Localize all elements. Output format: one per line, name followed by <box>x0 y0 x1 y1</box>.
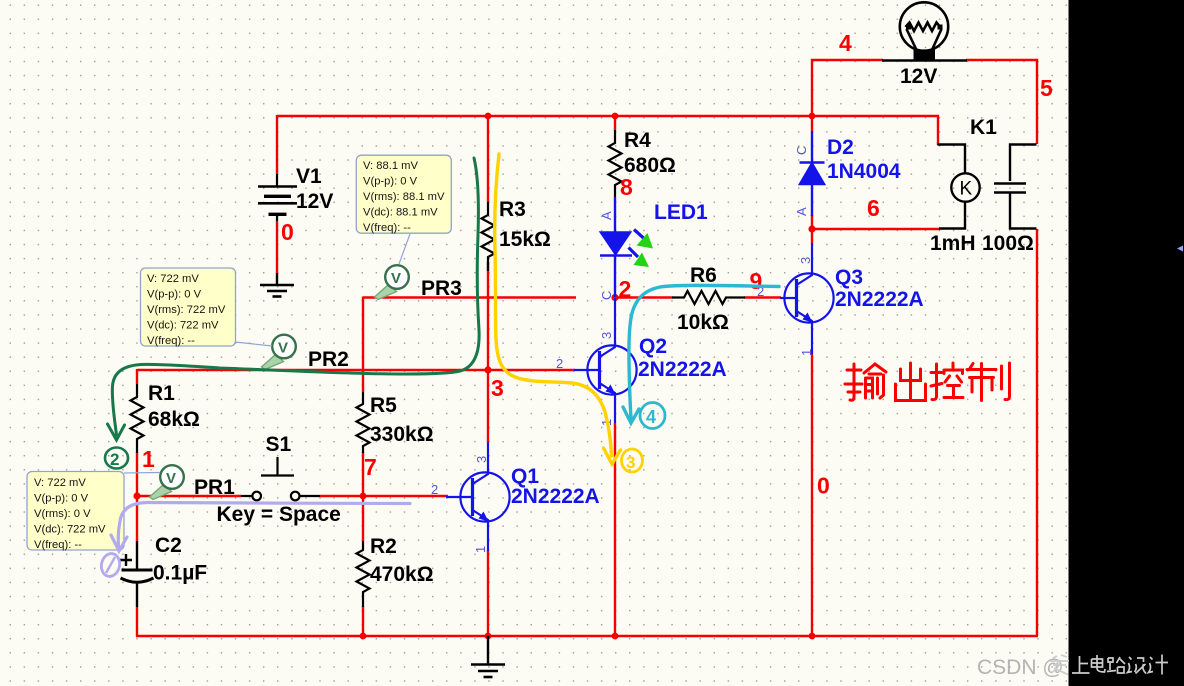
K1 coil <box>938 145 966 174</box>
wire R6 to Q3 base <box>744 296 781 298</box>
wire lamp branch right to contact <box>966 60 1037 144</box>
ground under battery <box>260 273 294 297</box>
char 控 <box>931 364 942 400</box>
svg-text:K: K <box>960 179 973 200</box>
junction node 7 <box>360 493 367 500</box>
junction bottom rail Q2 <box>612 633 619 640</box>
wire V1 top stub <box>276 115 278 174</box>
sidebar cyan marker <box>1177 246 1183 252</box>
svg-text:R1: R1 <box>148 382 175 405</box>
svg-text:Q2: Q2 <box>639 335 667 358</box>
wire R4 top stub <box>614 116 616 130</box>
tooltip PR2 leader <box>235 342 272 346</box>
junction bottom rail R2 <box>360 633 367 640</box>
switch S1 <box>241 457 320 500</box>
svg-text:V: V <box>391 270 401 287</box>
svg-text:12V: 12V <box>900 65 937 88</box>
resistor R6 (horizontal) <box>672 291 745 304</box>
char 上 <box>1072 656 1090 673</box>
svg-text:R3: R3 <box>499 198 526 221</box>
svg-text:R6: R6 <box>690 264 717 287</box>
svg-text:V: 722 mV: V: 722 mV <box>34 477 86 489</box>
svg-text:V(rms): 0 V: V(rms): 0 V <box>34 508 91 520</box>
svg-text:Key = Space: Key = Space <box>217 503 341 526</box>
junction at lamp/D2 branch <box>809 113 816 120</box>
probe PR1 <box>150 465 184 499</box>
wire node6 row to relay coil <box>812 228 940 230</box>
svg-text:R4: R4 <box>624 129 651 152</box>
junction at R3 top <box>485 113 492 120</box>
svg-text:2: 2 <box>110 450 119 469</box>
svg-text:3: 3 <box>626 453 635 472</box>
char 制 <box>967 364 996 401</box>
svg-text:CSDN @: CSDN @ <box>977 656 1064 679</box>
tooltip PR3 leader <box>399 234 410 264</box>
probe PR3 <box>375 265 409 299</box>
junction node 2 <box>611 294 618 301</box>
wire node3 to Q1 collector <box>487 370 489 442</box>
junction bottom rail Q3 <box>809 633 816 640</box>
resistor R5 <box>357 392 370 453</box>
transistor Q1 <box>446 442 510 551</box>
svg-text:V: V <box>278 340 288 357</box>
svg-text:V(freq): --: V(freq): -- <box>34 539 82 551</box>
svg-text:0: 0 <box>281 219 294 245</box>
relay K1 <box>938 145 1037 229</box>
K1 contact <box>1010 145 1037 182</box>
svg-text:PR1: PR1 <box>194 476 235 499</box>
junction at R4 top <box>612 113 619 120</box>
wire node3 row <box>137 369 575 371</box>
svg-text:1: 1 <box>473 546 488 553</box>
wire R3 bottom to node 3 <box>487 262 489 370</box>
tooltip PR1 leader <box>124 472 160 475</box>
wire relay contact bottom to right rail <box>1036 229 1038 636</box>
svg-text:470kΩ: 470kΩ <box>370 563 434 586</box>
char 设 <box>1128 657 1147 674</box>
resistor R2 <box>357 541 370 607</box>
svg-text:330kΩ: 330kΩ <box>370 423 434 446</box>
wire R3 branch top <box>487 116 489 202</box>
transistor Q3 <box>780 243 834 354</box>
char 路 <box>1107 657 1125 673</box>
svg-text:3: 3 <box>599 332 614 339</box>
resistor R4 <box>609 130 622 197</box>
annotation lavender curve to node 1 <box>111 502 410 551</box>
svg-text:100Ω: 100Ω <box>982 232 1034 255</box>
resistor R3 <box>482 202 495 271</box>
LED1 emission arrows <box>629 230 654 268</box>
svg-text:1mH: 1mH <box>930 232 976 255</box>
svg-text:2: 2 <box>431 482 438 497</box>
annotation cyan curve from node 9 <box>623 285 779 423</box>
annotation green curve to node 2 circle <box>108 158 480 440</box>
svg-text:C: C <box>599 291 614 300</box>
annotation circled 3 (yellow) <box>622 449 643 472</box>
annotation circled 4 (cyan) <box>640 403 665 429</box>
junction node 1 <box>133 492 140 499</box>
svg-text:V(rms): 88.1 mV: V(rms): 88.1 mV <box>363 191 445 203</box>
svg-text:10kΩ: 10kΩ <box>677 311 729 334</box>
svg-text:2N2222A: 2N2222A <box>511 485 600 508</box>
svg-text:1: 1 <box>799 349 814 356</box>
transistor Q2 <box>574 298 637 423</box>
svg-text:4: 4 <box>839 30 852 56</box>
svg-text:12V: 12V <box>296 190 333 213</box>
svg-text:V: 88.1 mV: V: 88.1 mV <box>363 160 418 172</box>
wire S1 row left <box>137 495 241 497</box>
svg-text:15kΩ: 15kΩ <box>499 228 551 251</box>
svg-text:K1: K1 <box>970 116 997 139</box>
red title 输出控制 <box>845 363 1010 401</box>
svg-text:7: 7 <box>364 454 377 480</box>
svg-text:V(p-p): 0 V: V(p-p): 0 V <box>363 176 418 188</box>
svg-text:V: 722 mV: V: 722 mV <box>147 273 199 285</box>
svg-text:V(p-p): 0 V: V(p-p): 0 V <box>34 493 89 505</box>
wire R2 bottom to rail <box>362 606 364 636</box>
watermark chinese 爱上电路设计 <box>1050 655 1168 675</box>
svg-text:PR2: PR2 <box>308 348 349 371</box>
svg-text:D2: D2 <box>827 136 854 159</box>
annotation circled 0 (lavender) <box>99 552 121 578</box>
char 电 <box>1092 655 1106 672</box>
wire C2 bottom to rail corner <box>136 607 138 636</box>
svg-text:6: 6 <box>867 195 880 221</box>
svg-text:R5: R5 <box>370 394 397 417</box>
svg-text:0: 0 <box>817 473 830 499</box>
svg-text:8: 8 <box>620 174 633 200</box>
svg-text:1N4004: 1N4004 <box>827 160 901 183</box>
tooltip PR3 box <box>356 155 451 234</box>
wire Q1 emitter to bottom rail <box>487 550 489 636</box>
probe PR2 <box>262 335 296 370</box>
wire D2 anode to node6 <box>811 215 813 243</box>
svg-text:3: 3 <box>798 257 813 264</box>
svg-text:V(dc): 722 mV: V(dc): 722 mV <box>34 524 106 536</box>
svg-text:A: A <box>599 211 614 220</box>
wire node2 rail <box>363 296 576 298</box>
wire D2 top stub <box>811 116 813 131</box>
svg-text:Q3: Q3 <box>835 266 863 289</box>
LED1 <box>600 197 632 297</box>
black sidebar <box>1069 0 1184 686</box>
annotation circled 2 (green) <box>105 448 128 470</box>
svg-text:3: 3 <box>474 456 489 463</box>
svg-text:2N2222A: 2N2222A <box>835 288 924 311</box>
battery V1 <box>258 174 297 221</box>
svg-text:V: V <box>166 470 176 487</box>
char 出 <box>896 363 926 401</box>
wire V1 bottom to ground <box>276 221 278 273</box>
wire node3 corner to R1 <box>136 369 138 384</box>
wire R1 bottom to node1 <box>136 452 138 497</box>
svg-text:C2: C2 <box>155 534 182 557</box>
svg-text:PR3: PR3 <box>421 277 462 300</box>
diode D2 <box>800 131 825 216</box>
wire Q3 emitter to bottom rail <box>811 354 813 636</box>
svg-text:V(p-p): 0 V: V(p-p): 0 V <box>147 289 202 301</box>
svg-text:V(freq): --: V(freq): -- <box>363 222 411 234</box>
svg-text:4: 4 <box>646 407 656 427</box>
wire Q2 emitter to bottom rail <box>614 423 616 636</box>
svg-text:V1: V1 <box>296 165 322 188</box>
junction bottom rail ground <box>485 633 492 640</box>
svg-text:C: C <box>794 146 809 155</box>
svg-text:2N2222A: 2N2222A <box>638 358 727 381</box>
svg-text:V(dc): 722 mV: V(dc): 722 mV <box>147 320 219 332</box>
tooltip PR1 box <box>27 472 124 552</box>
wire top rail from V1 corner to relay coil corner <box>277 116 938 145</box>
svg-text:2: 2 <box>556 356 563 371</box>
svg-text:2: 2 <box>619 276 632 302</box>
svg-text:68kΩ: 68kΩ <box>148 408 200 431</box>
svg-text:V(dc): 88.1 mV: V(dc): 88.1 mV <box>363 207 438 219</box>
svg-text:V(rms): 722 mV: V(rms): 722 mV <box>147 304 226 316</box>
char 输 <box>845 364 862 400</box>
svg-text:0.1µF: 0.1µF <box>153 562 207 585</box>
wire R5 bottom to node7 junction <box>362 452 364 497</box>
svg-text:3: 3 <box>491 375 504 401</box>
resistor R1 <box>131 384 144 453</box>
wire lamp branch left riser <box>812 60 883 116</box>
svg-text:R2: R2 <box>370 535 397 558</box>
wire node2 to R6 <box>615 296 673 298</box>
svg-text:S1: S1 <box>266 433 292 456</box>
capacitor C2 <box>120 541 154 607</box>
char 爱 <box>1050 655 1069 675</box>
junction node 3 <box>484 366 491 373</box>
annotation yellow curve to node emitter <box>495 154 621 464</box>
svg-text:A: A <box>794 207 809 216</box>
wire bottom rail <box>136 635 1038 637</box>
svg-text:1: 1 <box>142 446 155 472</box>
ground under Q1 <box>471 636 505 677</box>
wire node7 to R2 <box>362 495 364 541</box>
tooltip PR2 box <box>141 268 236 347</box>
char 计 <box>1149 655 1169 675</box>
wire node1 to C2 <box>136 495 138 541</box>
wire S1 right to Q1 base <box>320 495 448 497</box>
svg-text:V(freq): --: V(freq): -- <box>147 335 195 347</box>
junction node 6 <box>808 225 815 232</box>
lamp X1 <box>900 2 948 51</box>
svg-text:5: 5 <box>1040 75 1053 101</box>
svg-text:LED1: LED1 <box>654 201 708 224</box>
wire PR3 corner to R5 <box>362 297 364 393</box>
